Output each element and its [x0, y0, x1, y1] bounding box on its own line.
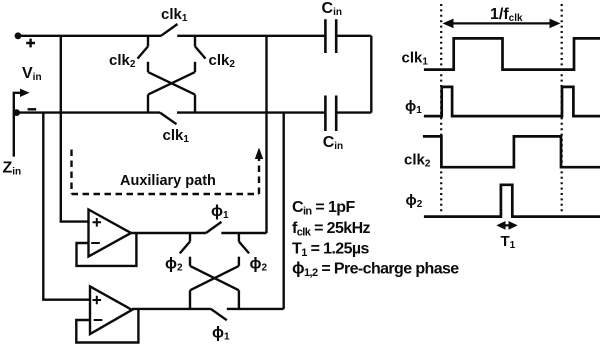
svg-text:ϕ2: ϕ2 [406, 192, 423, 210]
switch clk2 left lever [138, 46, 149, 58]
switch phi2 right bottom contact [238, 257, 240, 266]
svg-text:ϕ1: ϕ1 [212, 325, 230, 343]
switch phi1 upper lever [206, 222, 222, 233]
svg-text:clk2: clk2 [209, 52, 236, 70]
switch phi2 left bottom contact [189, 257, 191, 266]
wire top rail left segment [18, 35, 161, 37]
svg-text:ϕ1: ϕ1 [211, 203, 229, 221]
svg-text:clk1: clk1 [161, 6, 188, 24]
svg-text:Cin = 1pF: Cin = 1pF [292, 199, 355, 218]
svg-text:fclk = 25kHz: fclk = 25kHz [292, 220, 371, 239]
switch clk2 right lever [195, 46, 206, 58]
wire cross-couple diagonal right-to-left [148, 72, 195, 95]
wire node A: + rail down to A1 output line [265, 36, 267, 233]
svg-text:ϕ1,2 = Pre-charge phase: ϕ1,2 = Pre-charge phase [292, 259, 459, 280]
svg-text:Vin: Vin [22, 65, 42, 83]
timing diagram dotted line right [561, 4, 563, 212]
wire op-amp U2 output to node B [227, 308, 284, 310]
svg-text:Cin: Cin [323, 134, 343, 152]
capacitor Cin top [325, 19, 336, 53]
auxiliary path dashed left vertical [70, 150, 72, 195]
op-amp U2 feedback wire [76, 310, 138, 343]
op-amp U1 triangle [89, 210, 132, 257]
Zin input impedance arrow [14, 93, 22, 157]
wire phi2 network right drop [238, 290, 240, 309]
label + polarity sign [26, 39, 35, 48]
svg-text:T1 = 1.25µs: T1 = 1.25µs [292, 241, 370, 260]
wire op-amp U1 output to node A [221, 232, 266, 234]
auxiliary path dashed right vertical with up arrow [258, 158, 260, 194]
op-amp U1 feedback wire [77, 233, 137, 266]
op-amp U2 triangle [90, 286, 132, 334]
wire top rail right segment to capacitor [177, 35, 324, 37]
wire bottom rail left segment [17, 111, 160, 113]
svg-text:ϕ1: ϕ1 [405, 98, 422, 116]
wire op-amp U1 output segment [131, 232, 206, 234]
switch clk2 left bottom contact [147, 62, 149, 72]
wire phi2 cross diagonal right-to-left [190, 266, 239, 290]
waveform clk1 [424, 38, 600, 69]
op-amp U1 minus sign [91, 242, 100, 244]
waveform clk2 [423, 136, 600, 167]
wire phi2 cross diagonal left-to-right [190, 266, 239, 290]
wire right vertical joining capacitors [370, 36, 372, 113]
svg-text:ϕ2: ϕ2 [250, 256, 268, 274]
wire bottom rail after capacitor [337, 111, 371, 113]
wire from - rail down to op-amp A2 + input [43, 113, 90, 300]
label - polarity sign [28, 108, 37, 110]
wire cross network left drop to bottom rail [147, 95, 149, 113]
svg-text:clk1: clk1 [402, 50, 429, 68]
node + input terminal dot [15, 32, 22, 39]
switch clk2 left top contact stub [147, 36, 149, 47]
op-amp U1 plus sign [93, 218, 102, 227]
switch phi1 lower lever [211, 309, 227, 320]
capacitor Cin bottom [325, 96, 336, 132]
svg-text:T1: T1 [501, 233, 516, 251]
switch phi2 right lever [239, 242, 249, 254]
wire from + rail down to op-amp A1 + input [61, 36, 89, 222]
svg-text:clk2: clk2 [404, 152, 431, 170]
switch clk2 right bottom contact [194, 62, 196, 72]
wire top rail after capacitor [337, 35, 371, 37]
switch clk2 right top contact stub [194, 36, 196, 47]
svg-text:clk2: clk2 [109, 52, 136, 70]
waveform phi1 [424, 87, 600, 116]
wire phi2 network left drop [189, 290, 191, 309]
svg-text:Cin: Cin [322, 0, 342, 18]
svg-text:1/fclk: 1/fclk [490, 6, 523, 24]
dimension arrow T1 [496, 221, 517, 230]
timing diagram dotted line left [440, 4, 442, 212]
svg-text:ϕ2: ϕ2 [165, 256, 183, 274]
auxiliary path dashed bottom horizontal [72, 193, 260, 195]
dimension arrow 1/fclk [443, 19, 561, 29]
wire op-amp U2 output segment [132, 308, 211, 310]
waveform phi2 [424, 185, 600, 217]
wire cross-couple diagonal left-to-right [148, 72, 195, 95]
svg-text:Auxiliary path: Auxiliary path [120, 173, 216, 189]
wire cross network right drop to bottom rail [194, 95, 196, 113]
switch clk1 bottom lever [160, 113, 177, 125]
switch phi2 right top stub [238, 233, 240, 242]
svg-text:Zin: Zin [3, 160, 22, 178]
wire bottom rail right segment to capacitor [177, 111, 324, 113]
op-amp U2 minus sign [94, 319, 103, 321]
switch phi2 left lever [180, 242, 190, 254]
switch phi2 left top stub [189, 233, 191, 242]
node - input terminal dot [13, 109, 20, 116]
svg-text:clk1: clk1 [163, 127, 190, 145]
op-amp U2 plus sign [93, 296, 102, 305]
switch clk1 top lever [161, 24, 178, 36]
wire node B: - rail down to A2 output line [283, 113, 285, 309]
